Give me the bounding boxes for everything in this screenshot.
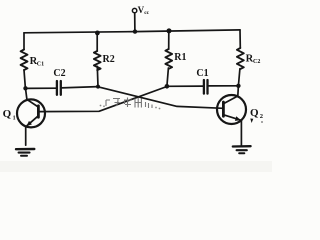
capacitor C2 [56,81,58,95]
Vcc supply wire [134,13,136,32]
junction node R2 bottom [96,85,100,89]
svg-text:C2: C2 [253,59,260,65]
wire top rail [24,30,240,33]
wire R1 node to C1 [167,85,204,87]
resistor R2 [94,51,101,70]
transistor Q2 [217,95,246,124]
junction node Vcc tap [133,29,137,33]
wire right vertical top [239,30,241,48]
resistor RC2 [237,48,244,69]
Vcc terminal circle [132,8,136,12]
Q2 emitter arrow [235,116,241,121]
wire C2 to R2 node [61,87,98,88]
stray arrow mark below Q2 label [250,119,253,124]
svg-text:C1: C1 [196,68,208,79]
resistor RC1 [21,50,28,71]
svg-text:R1: R1 [174,52,186,63]
wire R1 to node [167,68,169,86]
scan bleed-through smudge text in centre [106,98,152,109]
svg-text:cc: cc [144,10,149,16]
wire C1 to right node [208,85,239,87]
resistor R1 [165,49,172,69]
svg-text:Q: Q [3,108,12,120]
svg-text:1: 1 [13,116,16,122]
wire collector node to C2 [26,87,57,89]
svg-text:2: 2 [260,113,263,120]
wire cross-couple R1 node to Q1 base [39,87,167,112]
wire R1 drop [168,31,170,49]
ground under Q1 [16,148,34,151]
wire RC1 to collector node [24,70,25,88]
svg-text:Q: Q [250,107,259,119]
svg-text:C1: C1 [37,61,44,67]
svg-text:R2: R2 [103,54,115,65]
junction node R2 top [95,31,100,36]
svg-text:C2: C2 [53,68,65,79]
capacitor C1 [203,80,205,94]
Q1 emitter arrow [26,121,32,126]
transistor Q1 [17,99,45,127]
wire R2 to node [96,66,99,86]
junction node R1 top [167,28,172,33]
faint scan band along bottom [0,161,272,172]
scan specks [100,105,102,107]
wire RC2 to right node [238,69,240,86]
junction node Q1 collector [23,86,27,90]
junction node R1 bottom [165,84,170,89]
wire R2 drop [96,33,98,51]
junction node Q2 collector [236,84,240,88]
ground under Q2 [233,145,251,148]
wire left vertical top [23,33,25,50]
wire cross-couple R2 node to Q2 base [98,87,223,109]
